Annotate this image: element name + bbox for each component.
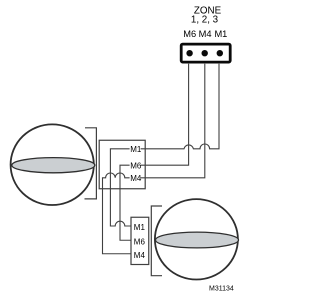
svg-text:M6: M6 [183, 29, 196, 39]
svg-text:M4: M4 [130, 174, 142, 183]
svg-text:M1: M1 [214, 29, 227, 39]
svg-text:M1: M1 [134, 223, 146, 232]
svg-text:M4: M4 [199, 29, 212, 39]
svg-text:M4: M4 [134, 251, 146, 260]
svg-text:M1: M1 [130, 145, 142, 154]
svg-text:M6: M6 [130, 161, 142, 170]
svg-text:M6: M6 [134, 237, 146, 246]
svg-text:1, 2, 3: 1, 2, 3 [191, 15, 219, 26]
svg-text:M31134: M31134 [209, 286, 234, 293]
